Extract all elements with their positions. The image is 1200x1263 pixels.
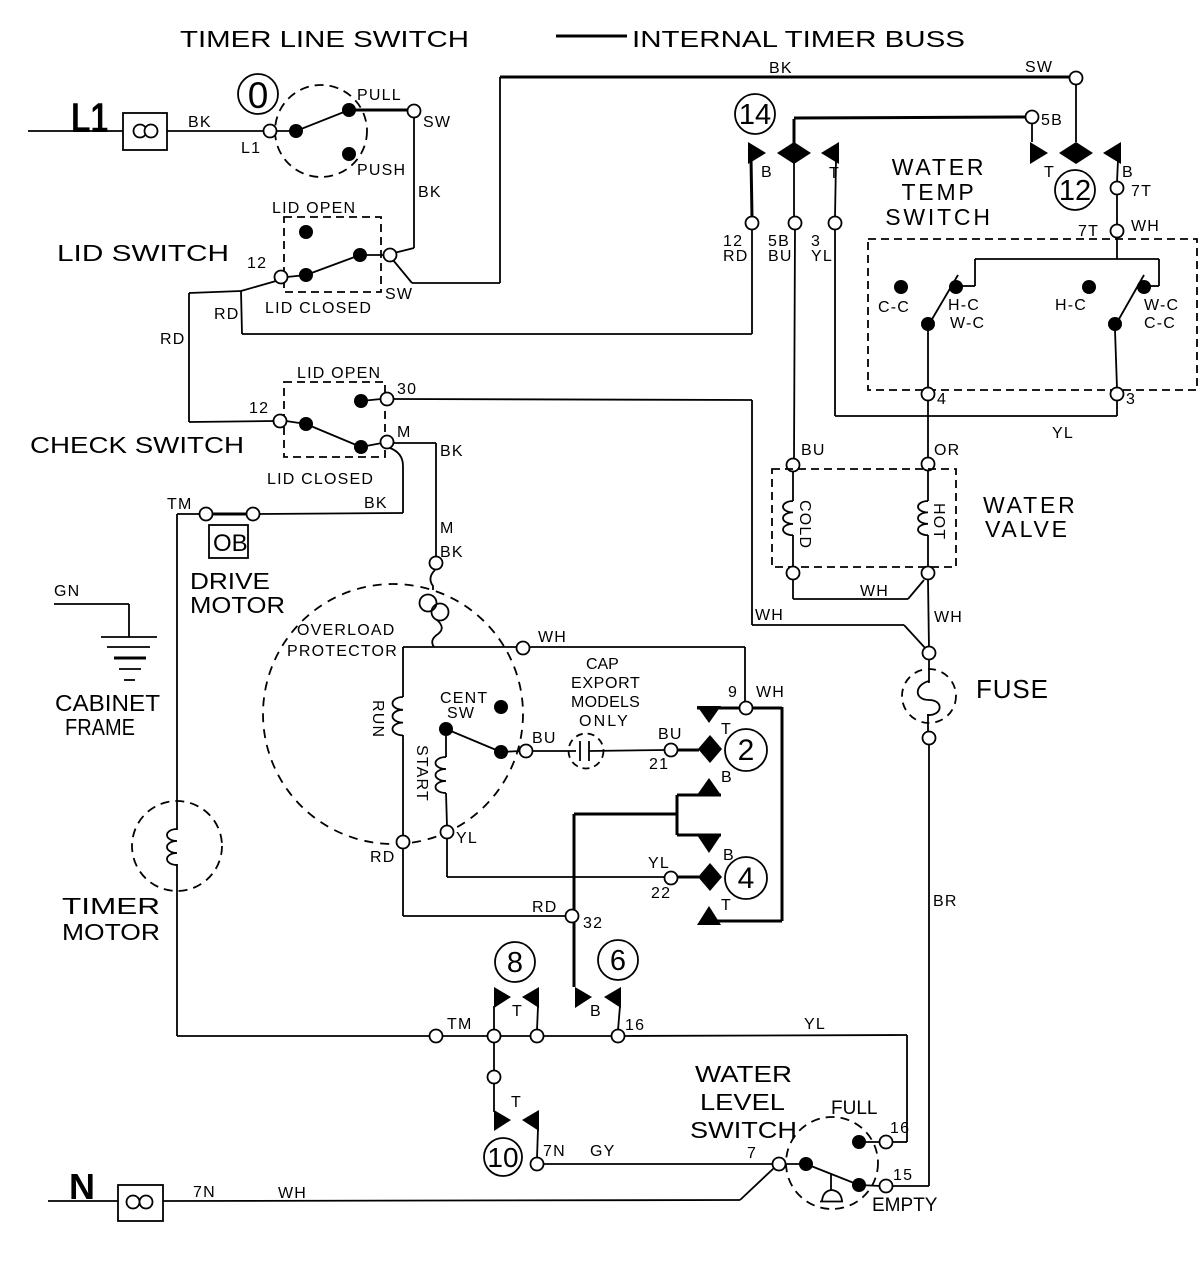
svg-text:14: 14 — [739, 99, 771, 131]
svg-text:9: 9 — [728, 684, 738, 701]
svg-text:C-C: C-C — [878, 299, 910, 316]
svg-text:PUSH: PUSH — [357, 162, 406, 179]
svg-text:BK: BK — [769, 60, 793, 77]
svg-text:BU: BU — [801, 442, 826, 459]
svg-text:RD: RD — [370, 849, 396, 866]
svg-text:YL: YL — [811, 248, 833, 265]
svg-text:TIMER: TIMER — [62, 893, 160, 919]
svg-text:BR: BR — [933, 893, 958, 910]
svg-text:SWITCH: SWITCH — [690, 1117, 797, 1143]
svg-text:HOT: HOT — [930, 503, 947, 540]
svg-text:SW: SW — [385, 286, 413, 303]
svg-text:OVERLOAD: OVERLOAD — [297, 622, 396, 639]
svg-text:COLD: COLD — [796, 500, 813, 549]
svg-text:CAP: CAP — [586, 656, 620, 673]
svg-text:WATER: WATER — [983, 492, 1078, 518]
svg-text:2: 2 — [738, 734, 755, 767]
svg-text:W-C: W-C — [1144, 297, 1179, 314]
svg-text:21: 21 — [649, 756, 669, 773]
svg-text:MOTOR: MOTOR — [190, 592, 285, 618]
svg-text:GY: GY — [590, 1143, 616, 1160]
svg-text:BU: BU — [768, 248, 793, 265]
svg-text:H-C: H-C — [1055, 297, 1087, 314]
svg-text:M: M — [397, 424, 412, 441]
svg-text:EMPTY: EMPTY — [872, 1195, 938, 1216]
svg-text:5B: 5B — [1041, 112, 1063, 129]
svg-text:LID CLOSED: LID CLOSED — [265, 300, 372, 317]
svg-text:WH: WH — [538, 629, 567, 646]
svg-text:WH: WH — [860, 583, 889, 600]
svg-text:FRAME: FRAME — [65, 714, 135, 740]
svg-text:H-C: H-C — [948, 297, 980, 314]
svg-text:B: B — [721, 769, 733, 786]
svg-text:OB: OB — [213, 530, 248, 557]
svg-text:SWITCH: SWITCH — [885, 204, 993, 230]
svg-text:22: 22 — [651, 885, 671, 902]
svg-text:TEMP: TEMP — [901, 179, 976, 205]
svg-text:CABINET: CABINET — [55, 690, 160, 716]
svg-text:12: 12 — [1059, 175, 1091, 207]
svg-text:WH: WH — [1131, 218, 1160, 235]
svg-text:RD: RD — [532, 899, 558, 916]
svg-text:0: 0 — [248, 75, 269, 116]
svg-text:ONLY: ONLY — [579, 713, 629, 730]
svg-text:BK: BK — [364, 495, 388, 512]
svg-text:CHECK SWITCH: CHECK SWITCH — [30, 432, 244, 458]
svg-text:W-C: W-C — [950, 315, 985, 332]
svg-text:WATER: WATER — [892, 154, 987, 180]
svg-text:T: T — [511, 1094, 522, 1111]
svg-text:YL: YL — [1052, 425, 1074, 442]
svg-text:PULL: PULL — [357, 87, 402, 104]
svg-text:FULL: FULL — [831, 1098, 877, 1119]
svg-text:12: 12 — [249, 400, 269, 417]
svg-text:10: 10 — [487, 1142, 518, 1173]
svg-text:TM: TM — [167, 496, 193, 513]
svg-text:EXPORT: EXPORT — [571, 675, 641, 692]
svg-text:LID OPEN: LID OPEN — [297, 365, 381, 382]
svg-text:WH: WH — [755, 607, 784, 624]
svg-text:WATER: WATER — [695, 1061, 792, 1087]
svg-text:C-C: C-C — [1144, 315, 1176, 332]
svg-text:M: M — [440, 520, 455, 537]
svg-text:YL: YL — [648, 855, 670, 872]
svg-text:MODELS: MODELS — [571, 694, 641, 711]
svg-text:BK: BK — [188, 114, 212, 131]
svg-text:LEVEL: LEVEL — [700, 1089, 785, 1115]
svg-text:RD: RD — [723, 248, 749, 265]
svg-text:SW: SW — [447, 705, 475, 722]
svg-text:YL: YL — [456, 830, 478, 847]
svg-text:LID SWITCH: LID SWITCH — [57, 240, 229, 266]
svg-text:TM: TM — [447, 1016, 473, 1033]
svg-text:4: 4 — [738, 862, 755, 895]
svg-text:RD: RD — [160, 331, 186, 348]
svg-text:INTERNAL TIMER BUSS: INTERNAL TIMER BUSS — [632, 26, 965, 52]
svg-text:T: T — [829, 165, 840, 182]
svg-text:T: T — [512, 1003, 523, 1020]
svg-text:MOTOR: MOTOR — [62, 919, 160, 945]
svg-text:B: B — [761, 164, 773, 181]
svg-text:3: 3 — [1126, 391, 1136, 408]
svg-text:OR: OR — [934, 442, 960, 459]
svg-text:SW: SW — [1025, 59, 1053, 76]
svg-text:WH: WH — [934, 609, 963, 626]
svg-text:START: START — [413, 745, 430, 802]
svg-text:BK: BK — [440, 443, 464, 460]
svg-text:FUSE: FUSE — [976, 674, 1048, 704]
svg-text:SW: SW — [423, 114, 451, 131]
svg-text:LID OPEN: LID OPEN — [272, 200, 356, 217]
svg-text:16: 16 — [625, 1017, 645, 1034]
svg-text:GN: GN — [54, 583, 80, 600]
svg-text:15: 15 — [893, 1167, 913, 1184]
svg-text:8: 8 — [507, 947, 523, 979]
svg-text:VALVE: VALVE — [985, 516, 1070, 542]
svg-text:WH: WH — [278, 1185, 307, 1202]
svg-text:B: B — [590, 1003, 602, 1020]
svg-text:7: 7 — [747, 1145, 757, 1162]
svg-text:WH: WH — [756, 684, 785, 701]
svg-text:7N: 7N — [543, 1143, 566, 1160]
svg-text:7T: 7T — [1078, 223, 1099, 240]
svg-text:BU: BU — [658, 726, 683, 743]
svg-text:4: 4 — [937, 391, 947, 408]
svg-text:12: 12 — [247, 255, 267, 272]
svg-text:BK: BK — [440, 544, 464, 561]
svg-text:32: 32 — [583, 915, 603, 932]
svg-text:LID CLOSED: LID CLOSED — [267, 471, 374, 488]
svg-text:RD: RD — [214, 306, 240, 323]
svg-text:RUN: RUN — [369, 700, 386, 738]
svg-text:TIMER LINE SWITCH: TIMER LINE SWITCH — [180, 26, 469, 52]
svg-text:6: 6 — [610, 945, 626, 977]
svg-text:YL: YL — [804, 1016, 826, 1033]
svg-text:PROTECTOR: PROTECTOR — [287, 643, 398, 660]
svg-text:7N: 7N — [193, 1184, 216, 1201]
svg-text:BU: BU — [532, 730, 557, 747]
svg-text:7T: 7T — [1131, 183, 1152, 200]
svg-text:T: T — [1044, 164, 1055, 181]
svg-text:T: T — [721, 897, 732, 914]
svg-text:30: 30 — [397, 381, 417, 398]
svg-text:L1: L1 — [71, 94, 108, 141]
svg-text:B: B — [1122, 164, 1134, 181]
svg-text:BK: BK — [418, 184, 442, 201]
svg-text:DRIVE: DRIVE — [190, 568, 270, 594]
svg-text:L1: L1 — [241, 140, 261, 157]
